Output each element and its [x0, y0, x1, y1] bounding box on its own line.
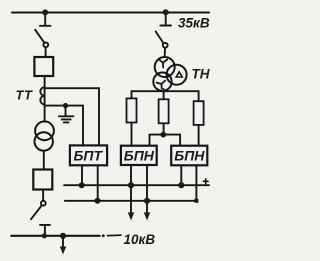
block БПН right: [171, 146, 207, 166]
TH delta symbol (right winding): [176, 72, 182, 77]
svg-text:35кВ: 35кВ: [178, 16, 210, 31]
node: junction dot right on 35kV bus: [163, 9, 169, 15]
terminal square at minus bus end: [194, 199, 198, 203]
voltage transformer TH (three circles): [153, 57, 186, 91]
node: dot BPN1 on plus bus: [128, 182, 134, 188]
svg-text:ТН: ТН: [192, 67, 210, 82]
node: middle phase branch dot: [160, 132, 166, 138]
label + (plus bus polarity): [203, 179, 208, 184]
current transformer TT (two bumps): [40, 87, 44, 104]
feeder arrow down from 10kV bus: [60, 236, 66, 255]
breaker box Q2 (lower left square): [33, 170, 52, 190]
wire: BPN right output 1: [180, 165, 182, 185]
svg-text:БПН: БПН: [124, 148, 155, 164]
disconnector QS3 blade and hinge: [156, 32, 168, 48]
node: feeder dot on 10kV bus: [60, 233, 66, 239]
block БПН left (voltage supply unit): [121, 146, 157, 165]
node: dot BPN1 on minus bus: [144, 198, 150, 204]
wire: 10kV bus dash-dot continuation: [102, 234, 121, 237]
wire: breaker to transformer: [44, 76, 46, 122]
node: dot BPN2 on plus bus: [178, 182, 184, 188]
wire: hinge to breaker box: [45, 47, 47, 57]
TH star symbol (top winding): [159, 60, 167, 68]
node: dot QS2 on 10kV bus: [42, 233, 47, 238]
node: dot on grounded CT wire: [63, 103, 68, 108]
wire: BPN left output 2 with arrow: [146, 165, 148, 213]
svg-text:10кВ: 10кВ: [124, 232, 156, 247]
disconnector QS2 hinge and blade: [31, 201, 46, 219]
svg-text:ТТ: ТТ: [16, 88, 33, 103]
wire: breaker to hinge: [42, 190, 44, 201]
disconnector QS1 fixed contact (left T tick): [40, 12, 51, 25]
wire: TH middle phase drop: [163, 89, 165, 135]
fuse F3: [194, 101, 204, 125]
wire: middle phase branch to both BPN: [150, 135, 181, 146]
wire: BPT output left to plus bus: [81, 165, 83, 185]
arrow head BPN1 output 1: [128, 212, 134, 220]
wire: CT lower tap to BPT: [45, 106, 83, 146]
fuse F2: [159, 99, 169, 123]
fuse F1: [127, 98, 137, 122]
node: dot BPT on plus bus: [79, 182, 85, 188]
node: dot BPT on minus bus: [95, 198, 101, 204]
transformer T1 (two overlapping circles): [35, 121, 54, 150]
wire: BPN right output 2: [195, 165, 197, 201]
wire: 10kV bus: [11, 235, 100, 237]
breaker box Q1 (upper left square): [34, 57, 53, 76]
wire: hinge to TH: [164, 48, 166, 58]
wire: TH secondary distribution line: [132, 91, 199, 146]
block БПТ (current supply unit): [70, 145, 107, 165]
svg-text:БПН: БПН: [174, 148, 205, 164]
wire: DC plus bus: [64, 184, 209, 186]
disconnector QS3 fixed contact (right T tick): [160, 12, 171, 25]
svg-text:БПТ: БПТ: [74, 148, 104, 164]
ground symbol: [59, 106, 74, 123]
wire: transformer to lower breaker: [43, 151, 45, 170]
wire: 35kV bus: [12, 11, 209, 13]
wire: BPN left output 1 with arrow: [130, 165, 132, 213]
TH star symbol (bottom winding): [157, 81, 166, 89]
arrow head BPN1 output 2: [144, 212, 150, 220]
node: junction dot left on 35kV bus: [42, 9, 48, 15]
wire: CT upper tap to BPT: [45, 88, 99, 145]
wire: BPT output right to minus bus: [97, 165, 99, 201]
disconnector QS2 fixed contact (bottom T tick): [40, 225, 50, 236]
disconnector QS1 blade and hinge: [35, 30, 48, 47]
wire: DC minus bus: [65, 200, 197, 202]
